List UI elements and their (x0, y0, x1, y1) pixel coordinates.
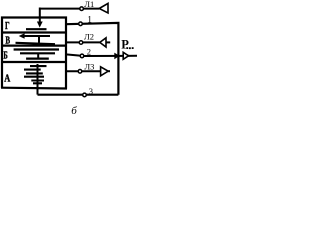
svg-text:3: 3 (89, 86, 93, 96)
svg-text:В: В (5, 36, 10, 47)
svg-text:1: 1 (87, 15, 92, 25)
svg-text:Г: Г (5, 21, 10, 32)
svg-text:Л2: Л2 (84, 31, 94, 41)
svg-text:Л1: Л1 (84, 0, 94, 9)
svg-text:Р: Р (121, 37, 129, 51)
svg-text:б: б (71, 105, 77, 115)
svg-text:Л3: Л3 (84, 62, 94, 72)
svg-text:2: 2 (87, 46, 91, 56)
svg-text:А: А (4, 73, 11, 84)
svg-text:Б: Б (3, 50, 8, 61)
